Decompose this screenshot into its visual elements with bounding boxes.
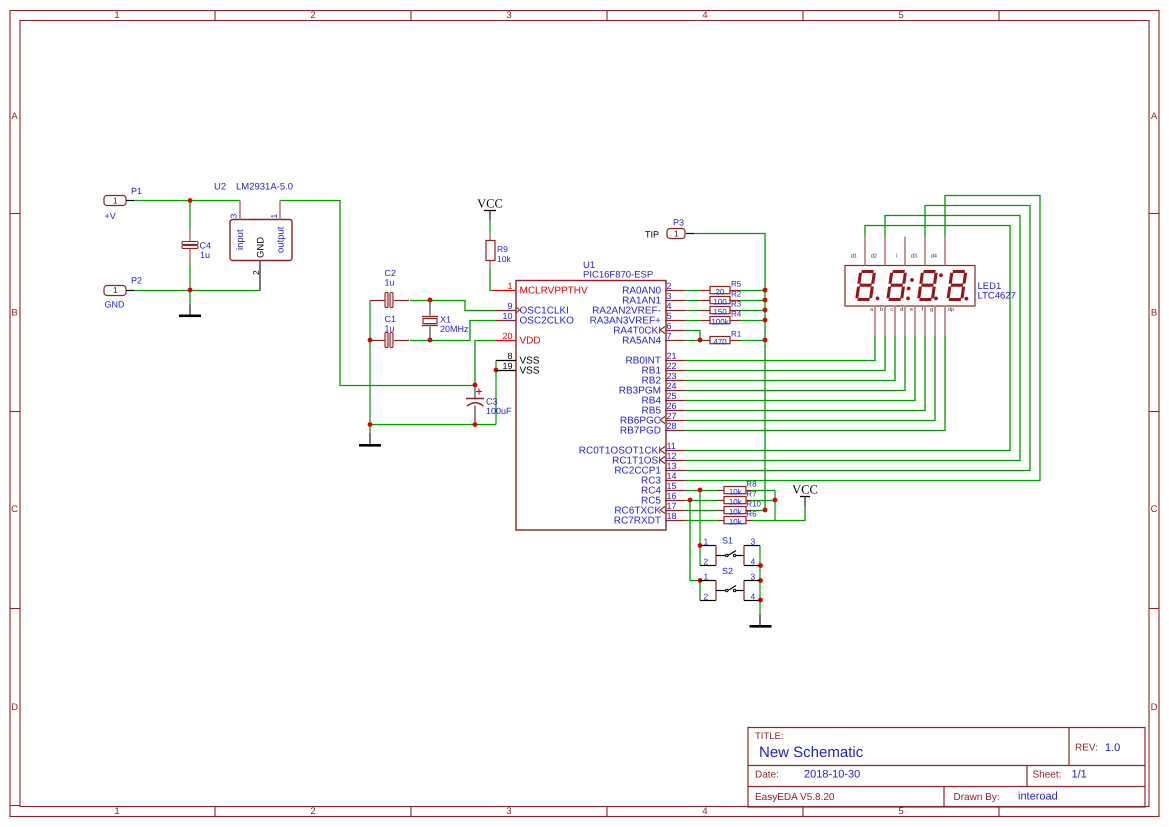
svg-text:OSC2CLKO: OSC2CLKO: [520, 316, 575, 327]
svg-text:3: 3: [751, 572, 756, 582]
svg-text:output: output: [276, 226, 287, 253]
svg-text:d2: d2: [871, 254, 877, 260]
svg-text:100: 100: [713, 297, 727, 306]
svg-text:26: 26: [667, 401, 677, 411]
svg-text:2: 2: [310, 806, 315, 817]
svg-text:P1: P1: [131, 186, 142, 196]
svg-text:28: 28: [667, 421, 677, 431]
svg-text:4: 4: [702, 806, 707, 817]
svg-text:2018-10-30: 2018-10-30: [804, 769, 860, 781]
svg-text:P2: P2: [131, 276, 142, 286]
svg-text:3: 3: [506, 806, 511, 817]
svg-text:150: 150: [713, 307, 727, 316]
svg-text:EasyEDA V5.8.20: EasyEDA V5.8.20: [755, 792, 835, 803]
svg-text:interoad: interoad: [1018, 791, 1058, 803]
svg-text:1: 1: [269, 214, 279, 219]
svg-text:23: 23: [667, 371, 677, 381]
svg-text:D: D: [11, 702, 18, 713]
svg-text:10k: 10k: [497, 254, 511, 264]
svg-text:1u: 1u: [385, 324, 395, 334]
svg-text:1: 1: [114, 10, 119, 21]
svg-text:1.0: 1.0: [1105, 742, 1120, 754]
svg-text:g: g: [930, 307, 933, 313]
svg-text:PIC16F870-ESP: PIC16F870-ESP: [583, 270, 653, 281]
svg-text:VCC: VCC: [792, 483, 818, 497]
svg-text:13: 13: [667, 461, 677, 471]
svg-text:4: 4: [702, 10, 707, 21]
svg-text:C4: C4: [200, 241, 212, 251]
svg-text:19: 19: [502, 361, 512, 371]
svg-text:S2: S2: [722, 566, 733, 576]
svg-text:B: B: [11, 308, 17, 319]
svg-text:11: 11: [667, 441, 676, 451]
svg-text:GND: GND: [105, 300, 126, 310]
svg-text:2: 2: [704, 592, 709, 602]
svg-text:Sheet:: Sheet:: [1033, 770, 1062, 781]
svg-text:22: 22: [667, 361, 677, 371]
svg-text:1/1: 1/1: [1072, 769, 1087, 781]
svg-text:3: 3: [229, 214, 239, 219]
svg-text:1: 1: [114, 806, 119, 817]
svg-text:Drawn By:: Drawn By:: [954, 792, 1000, 803]
svg-text:1: 1: [674, 229, 679, 239]
svg-text:d1: d1: [851, 254, 857, 260]
svg-text:12: 12: [667, 451, 677, 461]
svg-text:3: 3: [667, 291, 672, 301]
svg-text:1: 1: [113, 285, 118, 295]
svg-text:10k: 10k: [729, 517, 743, 526]
svg-text:U2: U2: [214, 182, 226, 193]
svg-text:R2: R2: [731, 289, 742, 298]
svg-text:R9: R9: [497, 244, 508, 254]
svg-text:2: 2: [251, 270, 261, 275]
svg-text:dp: dp: [948, 307, 954, 313]
svg-text:27: 27: [667, 411, 677, 421]
svg-text:100k: 100k: [711, 317, 729, 326]
svg-text:3: 3: [506, 10, 511, 21]
svg-text:d3: d3: [911, 254, 917, 260]
svg-text:TITLE:: TITLE:: [755, 731, 784, 742]
svg-text:1: 1: [704, 537, 709, 547]
svg-text:P3: P3: [673, 218, 684, 228]
svg-text:24: 24: [667, 381, 677, 391]
svg-text:21: 21: [667, 351, 677, 361]
svg-text:RB7PGD: RB7PGD: [620, 426, 661, 437]
svg-text:18: 18: [667, 511, 677, 521]
svg-text:R1: R1: [731, 329, 742, 338]
svg-text:1: 1: [507, 281, 512, 291]
svg-text:e: e: [910, 307, 913, 313]
svg-text:6: 6: [667, 321, 672, 331]
svg-text:R5: R5: [731, 279, 742, 288]
svg-text:3: 3: [751, 537, 756, 547]
svg-text:4: 4: [751, 557, 756, 567]
svg-text:5: 5: [667, 311, 672, 321]
svg-text:10: 10: [502, 311, 512, 321]
svg-text:15: 15: [667, 481, 677, 491]
svg-text:C1: C1: [385, 314, 397, 324]
svg-text:1u: 1u: [385, 278, 395, 288]
svg-text:R4: R4: [731, 309, 742, 318]
svg-text:C: C: [1151, 504, 1158, 515]
svg-text:16: 16: [667, 491, 677, 501]
svg-text:C2: C2: [385, 268, 397, 278]
svg-text:8: 8: [507, 351, 512, 361]
svg-text:10k: 10k: [729, 497, 743, 506]
svg-text:20: 20: [716, 287, 725, 296]
svg-text:2: 2: [667, 281, 672, 291]
svg-text:b: b: [880, 307, 883, 313]
svg-text:New Schematic: New Schematic: [759, 744, 864, 761]
svg-text:TIP: TIP: [645, 230, 659, 240]
svg-text:R10: R10: [746, 499, 761, 508]
svg-text:RA5AN4: RA5AN4: [622, 336, 661, 347]
svg-text:+V: +V: [105, 211, 116, 221]
svg-text:VCC: VCC: [477, 197, 503, 211]
svg-text:9: 9: [507, 301, 512, 311]
svg-text:Date:: Date:: [755, 770, 779, 781]
svg-text:C: C: [11, 504, 18, 515]
svg-text:R8: R8: [746, 479, 757, 488]
svg-text:B: B: [1151, 308, 1157, 319]
svg-text:1: 1: [113, 196, 118, 206]
svg-text:LTC4627: LTC4627: [978, 291, 1016, 302]
svg-text:10k: 10k: [729, 507, 743, 516]
svg-text:4: 4: [667, 301, 672, 311]
svg-text:c: c: [890, 307, 893, 313]
svg-text:S1: S1: [722, 536, 733, 546]
svg-text:2: 2: [704, 557, 709, 567]
svg-text:1u: 1u: [200, 250, 210, 260]
svg-text:R6: R6: [746, 509, 757, 518]
svg-text:A: A: [1151, 111, 1158, 122]
svg-text:10k: 10k: [729, 487, 743, 496]
svg-text:A: A: [11, 111, 18, 122]
svg-text:1: 1: [704, 572, 709, 582]
svg-text:470: 470: [713, 337, 727, 346]
svg-text:R3: R3: [731, 299, 742, 308]
svg-text:X1: X1: [440, 315, 451, 325]
svg-text:VDD: VDD: [520, 336, 541, 347]
svg-text:20MHz: 20MHz: [440, 324, 469, 334]
svg-text:RC7RXDT: RC7RXDT: [614, 516, 661, 527]
svg-text:LM2931A-5.0: LM2931A-5.0: [236, 182, 293, 193]
svg-text:25: 25: [667, 391, 677, 401]
svg-text:14: 14: [667, 471, 677, 481]
svg-text:100uF: 100uF: [486, 406, 512, 416]
svg-text:VSS: VSS: [520, 366, 540, 377]
svg-text:input: input: [235, 229, 246, 250]
svg-text:d: d: [900, 307, 903, 313]
svg-text:2: 2: [310, 10, 315, 21]
svg-text:4: 4: [751, 592, 756, 602]
svg-text:REV:: REV:: [1075, 743, 1098, 754]
svg-text:MCLRVPPTHV: MCLRVPPTHV: [520, 286, 588, 297]
svg-text:d4: d4: [931, 254, 937, 260]
svg-text:20: 20: [502, 331, 512, 341]
svg-text:7: 7: [667, 331, 672, 341]
svg-text:5: 5: [898, 10, 903, 21]
svg-text:17: 17: [667, 501, 677, 511]
svg-text:C3: C3: [486, 397, 498, 407]
svg-text:D: D: [1151, 702, 1158, 713]
svg-text:R7: R7: [746, 489, 757, 498]
svg-text:GND: GND: [256, 237, 267, 258]
svg-text:i: i: [896, 254, 897, 260]
